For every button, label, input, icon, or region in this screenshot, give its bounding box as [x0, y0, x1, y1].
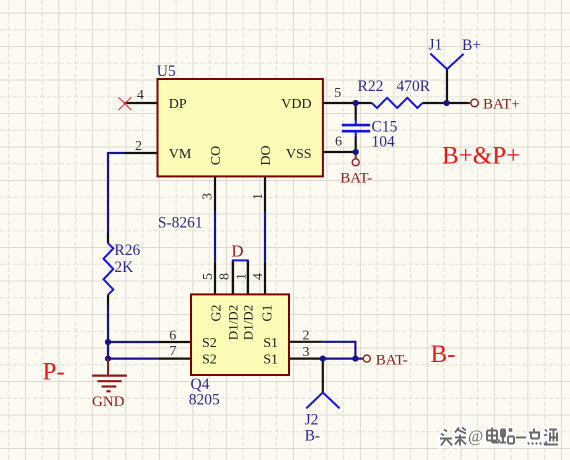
svg-text:8: 8 [218, 273, 233, 280]
svg-text:8205: 8205 [189, 392, 220, 409]
svg-text:Q4: Q4 [191, 376, 210, 393]
svg-text:BAT-: BAT- [376, 353, 408, 369]
svg-text:S1: S1 [263, 336, 278, 351]
svg-text:CO: CO [209, 146, 224, 165]
svg-text:BAT+: BAT+ [483, 97, 520, 113]
svg-text:6: 6 [169, 329, 176, 344]
svg-text:3: 3 [201, 193, 216, 200]
svg-text:104: 104 [372, 134, 396, 151]
svg-text:2K: 2K [114, 259, 134, 276]
svg-text:S1: S1 [263, 353, 278, 368]
svg-text:1: 1 [234, 273, 249, 280]
svg-text:B+: B+ [462, 37, 481, 54]
svg-text:U5: U5 [157, 63, 176, 80]
svg-text:J2: J2 [305, 412, 319, 429]
svg-text:GND: GND [92, 394, 125, 410]
svg-text:B-: B- [305, 428, 321, 445]
svg-text:7: 7 [170, 344, 177, 359]
svg-text:4: 4 [251, 273, 266, 280]
svg-text:VSS: VSS [286, 147, 312, 162]
svg-text:B-: B- [431, 341, 456, 368]
svg-text:R22: R22 [358, 78, 384, 95]
svg-text:R26: R26 [114, 242, 140, 259]
svg-text:DP: DP [169, 97, 187, 112]
svg-text:D1/D2: D1/D2 [241, 305, 256, 340]
svg-text:5: 5 [334, 86, 341, 101]
svg-text:2: 2 [135, 139, 142, 154]
svg-text:1: 1 [251, 193, 266, 200]
svg-text:VDD: VDD [281, 97, 311, 112]
svg-text:G2: G2 [210, 304, 225, 321]
svg-text:@: @ [468, 427, 483, 446]
svg-text:S2: S2 [202, 336, 217, 351]
svg-text:S-8261: S-8261 [158, 214, 203, 231]
svg-text:3: 3 [303, 345, 310, 360]
svg-text:D: D [232, 242, 244, 261]
svg-text:D1/D2: D1/D2 [225, 305, 240, 340]
svg-text:S2: S2 [202, 353, 217, 368]
svg-text:6: 6 [335, 135, 342, 150]
svg-text:DO: DO [259, 145, 274, 165]
svg-text:2: 2 [303, 329, 310, 344]
svg-text:P-: P- [43, 359, 65, 386]
svg-text:470R: 470R [397, 78, 431, 95]
svg-text:4: 4 [137, 88, 144, 103]
svg-text:VM: VM [169, 147, 192, 162]
svg-text:J1: J1 [429, 37, 443, 54]
svg-text:B+&P+: B+&P+ [442, 143, 520, 170]
svg-text:5: 5 [201, 273, 216, 280]
svg-text:G1: G1 [261, 304, 276, 321]
svg-text:BAT-: BAT- [340, 171, 372, 187]
